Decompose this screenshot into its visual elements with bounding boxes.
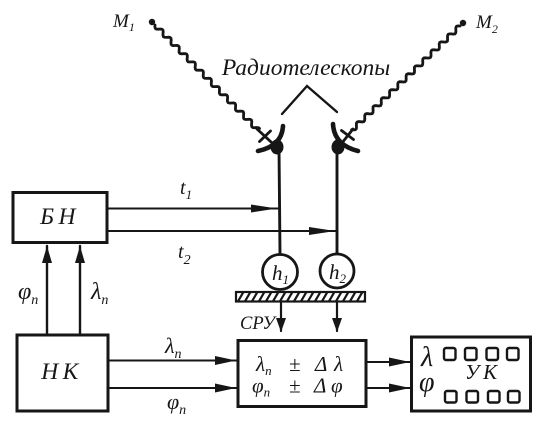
- indicator square top 2: [465, 348, 477, 360]
- block correlator: [238, 341, 366, 407]
- svg-text:СРУ: СРУ: [240, 314, 277, 334]
- svg-text:φ: φ: [419, 367, 435, 398]
- wire h1 down to correlator: [280, 303, 282, 331]
- block NK: [17, 335, 108, 411]
- wire phi_n from NK up to BN: [46, 246, 48, 335]
- antenna A1 cross mark: [260, 131, 271, 142]
- wire lambda out correlator to UK: [366, 361, 411, 363]
- wire phi_n from NK to correlator: [108, 387, 237, 389]
- antenna A2 dish: [333, 124, 358, 151]
- wire h2 down to correlator: [336, 303, 338, 331]
- node M1 source dot: [149, 19, 155, 25]
- indicator square bottom 4: [508, 391, 520, 403]
- wire lambda_n from NK to correlator: [108, 360, 237, 362]
- block BN: [13, 193, 107, 243]
- svg-text:Радиотелескопы: Радиотелескопы: [221, 55, 390, 81]
- receiver h2 circle: [320, 254, 354, 288]
- block UK: [412, 337, 531, 411]
- indicator square bottom 2: [467, 391, 479, 403]
- svg-text:БН: БН: [39, 204, 80, 230]
- receiver h1 circle: [263, 255, 298, 290]
- antenna A1 feed wire: [257, 129, 277, 148]
- svg-text:УК: УК: [465, 360, 501, 384]
- indicator square top 4: [507, 348, 519, 360]
- wire t1 from BN to mast 1: [107, 208, 280, 210]
- brace chevron pointing to antennas: [282, 86, 337, 114]
- antenna A2 mast wire: [336, 147, 339, 254]
- antenna A1 mast wire: [279, 148, 280, 254]
- indicator square top 1: [444, 348, 456, 360]
- indicator square top 3: [487, 348, 499, 360]
- svg-text:НК: НК: [40, 359, 83, 385]
- node M2 source dot: [460, 20, 466, 26]
- indicator square bottom 1: [445, 391, 457, 403]
- indicator square bottom 3: [488, 391, 500, 403]
- antenna A2 feed wire: [338, 129, 353, 148]
- wire t2 from BN to mast 2: [107, 230, 337, 232]
- wire phi out correlator to UK: [366, 387, 411, 389]
- hatched baseline bar: [230, 291, 370, 303]
- wire wavy ray from M2 to antenna 2: [352, 26, 460, 130]
- wire wavy ray from M1 to antenna 1: [155, 25, 260, 129]
- wire lambda_n from NK up to BN: [79, 246, 81, 335]
- antenna A1 dish: [258, 126, 283, 151]
- antenna A2 cross mark: [342, 131, 354, 140]
